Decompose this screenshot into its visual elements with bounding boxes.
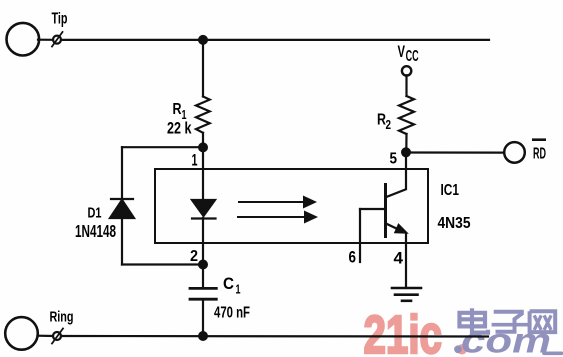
terminal Vcc circle: [402, 66, 411, 75]
terminal Ring plug circle: [5, 317, 38, 350]
wire LED to node 2: [202, 218, 204, 265]
optocoupler box IC1: [155, 169, 428, 243]
wire pin 6: [359, 209, 361, 262]
watermark char dian: [460, 308, 489, 332]
svg-text:22 k: 22 k: [167, 119, 192, 138]
phototransistor emitter arrowhead: [394, 223, 409, 234]
wire node5 to RD: [406, 151, 504, 153]
svg-text:R: R: [173, 101, 182, 118]
svg-text:470 nF: 470 nF: [214, 305, 250, 322]
diode D1 cathode bar: [111, 198, 133, 200]
svg-text:com: com: [461, 322, 551, 357]
svg-text:IC1: IC1: [441, 182, 460, 199]
svg-text:1N4148: 1N4148: [75, 221, 116, 241]
svg-text:Ring: Ring: [50, 309, 74, 326]
light arrow 1: [239, 201, 305, 203]
wire LED anode: [202, 147, 204, 200]
terminal Ring contact circle: [53, 332, 61, 340]
watermark char zi: [492, 312, 529, 332]
svg-text:4: 4: [394, 249, 404, 268]
svg-text:D1: D1: [88, 205, 102, 222]
svg-text:1: 1: [192, 151, 198, 170]
wire emitter to ground: [405, 234, 407, 288]
watermark lavender period: [454, 345, 462, 353]
watermark com tail swash: [544, 351, 562, 355]
ground bar 1: [392, 287, 421, 290]
svg-text:C: C: [223, 274, 234, 293]
svg-text:21ic: 21ic: [364, 306, 443, 357]
watermark char wang: [530, 311, 556, 332]
svg-text:2: 2: [190, 248, 198, 265]
terminal Tip contact slash: [52, 32, 63, 47]
junction dot top: [198, 35, 208, 45]
node 1 dot: [198, 142, 208, 152]
ground bar 2: [395, 293, 418, 296]
wire R2 lower: [405, 134, 407, 152]
watermark salmon dot: [457, 344, 467, 354]
terminal Tip contact circle: [53, 36, 61, 44]
svg-text:5: 5: [390, 151, 398, 168]
svg-text:6: 6: [349, 248, 357, 267]
wire bottom rail: [61, 335, 488, 338]
wire C1 top: [202, 265, 204, 289]
diode D1 triangle: [110, 200, 134, 218]
light arrow 2: [238, 216, 306, 218]
LED cathode bar: [192, 217, 216, 219]
svg-text:Tip: Tip: [52, 11, 68, 28]
resistor R2 zigzag: [399, 96, 414, 134]
wire node1 to D1: [122, 146, 203, 148]
capacitor C1 bottom plate: [190, 298, 216, 301]
svg-text:2: 2: [386, 117, 392, 132]
phototransistor emitter: [386, 223, 404, 231]
label RD overline: [532, 138, 546, 141]
phototransistor base lead: [360, 208, 386, 210]
wire C1 bottom: [202, 299, 204, 336]
wire D1 lower: [121, 218, 123, 265]
wire top rail: [61, 39, 489, 41]
svg-text:RD: RD: [533, 146, 546, 163]
svg-text:CC: CC: [406, 48, 419, 65]
wire Tip stub: [38, 39, 53, 41]
capacitor C1 top plate: [190, 287, 216, 290]
wire R1 lower: [202, 133, 204, 148]
terminal Tip plug circle: [7, 23, 40, 56]
wire R1 upper: [202, 40, 204, 97]
LED triangle: [192, 200, 215, 216]
wire Ring stub: [38, 335, 54, 337]
wire D1 to node2: [122, 263, 203, 265]
junction dot bottom: [198, 331, 208, 341]
wire Vcc to R2: [405, 75, 407, 96]
terminal RD circle: [504, 142, 525, 163]
phototransistor collector: [386, 152, 407, 197]
phototransistor base bar: [384, 185, 387, 237]
svg-text:4N35: 4N35: [438, 215, 471, 232]
node 5 dot: [401, 147, 411, 157]
node 2 dot: [198, 260, 208, 270]
resistor R1 zigzag: [196, 97, 210, 133]
terminal Ring contact slash: [52, 329, 63, 344]
wire D1 upper: [121, 147, 123, 199]
ground bar 3: [402, 299, 411, 302]
svg-text:V: V: [398, 42, 406, 61]
svg-text:1: 1: [236, 282, 241, 297]
